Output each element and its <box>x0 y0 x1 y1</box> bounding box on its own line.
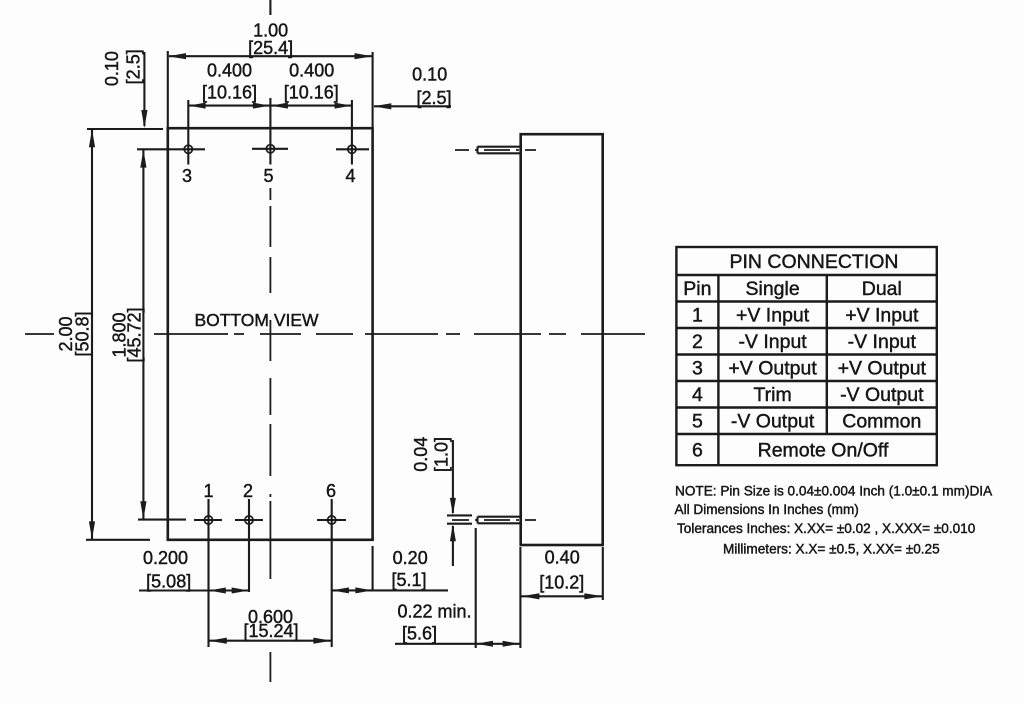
svg-text:BOTTOM VIEW: BOTTOM VIEW <box>194 310 319 330</box>
dim 2.00 extension lines <box>87 128 163 130</box>
svg-text:Common: Common <box>842 411 921 433</box>
dim 1.00 extension lines <box>167 51 169 127</box>
pin 1 <box>194 499 222 647</box>
pin 3 <box>137 100 205 165</box>
notes text <box>675 483 994 556</box>
bottom view package outline <box>168 128 373 540</box>
svg-text:6: 6 <box>326 481 336 501</box>
svg-text:4: 4 <box>345 166 355 186</box>
svg-text:0.22 min.: 0.22 min. <box>397 601 471 621</box>
dim 0.04 arrows <box>452 440 454 513</box>
svg-text:[2.5]: [2.5] <box>416 88 451 108</box>
svg-text:[1.0]: [1.0] <box>432 437 452 472</box>
svg-text:[25.4]: [25.4] <box>248 38 293 58</box>
svg-text:0.20: 0.20 <box>393 548 428 568</box>
svg-text:2: 2 <box>692 331 703 353</box>
svg-text:+V Output: +V Output <box>728 358 817 380</box>
svg-text:0.04: 0.04 <box>411 437 431 472</box>
pin 6 <box>317 499 346 647</box>
svg-text:+V Output: +V Output <box>838 358 927 380</box>
svg-text:[2.5]: [2.5] <box>124 49 144 84</box>
svg-text:5: 5 <box>263 166 273 186</box>
vertical centerline extension for 0.400 dims <box>269 98 271 128</box>
svg-text:PIN CONNECTION: PIN CONNECTION <box>729 251 898 273</box>
svg-text:[5.1]: [5.1] <box>391 570 426 590</box>
svg-text:NOTE: Pin Size is 0.04±0.004 I: NOTE: Pin Size is 0.04±0.004 Inch (1.0±0… <box>675 483 993 498</box>
svg-text:[5.08]: [5.08] <box>146 571 191 591</box>
dim 0.600 line <box>209 640 332 642</box>
svg-text:0.200: 0.200 <box>143 548 188 568</box>
svg-text:3: 3 <box>692 358 703 380</box>
dim 0.200 line <box>139 589 249 591</box>
svg-text:Dual: Dual <box>862 278 902 300</box>
svg-text:Trim: Trim <box>753 384 791 406</box>
svg-text:Single: Single <box>745 278 799 300</box>
svg-text:Pin: Pin <box>683 278 711 300</box>
svg-text:3: 3 <box>182 166 192 186</box>
pin connection table borders <box>676 247 936 465</box>
svg-text:[15.24]: [15.24] <box>243 621 298 641</box>
svg-text:[10.16]: [10.16] <box>202 82 257 102</box>
side view top pin <box>455 147 536 154</box>
horizontal centerline dashed across drawing <box>25 333 645 335</box>
svg-text:0.10: 0.10 <box>412 65 447 85</box>
dim 1.800 line <box>142 150 144 519</box>
svg-text:[45.72]: [45.72] <box>125 307 145 362</box>
dim 0.20 extension and line <box>372 546 374 591</box>
pin 5 <box>252 128 288 165</box>
pin 2 <box>235 499 263 592</box>
svg-text:Millimeters: X.X= ±0.5, X.XX=: Millimeters: X.X= ±0.5, X.XX= ±0.25 <box>723 541 940 556</box>
dim 0.22 line <box>395 643 520 645</box>
svg-text:-V Input: -V Input <box>848 331 917 353</box>
dim 0.40 extension and line <box>602 547 604 600</box>
dim 0.04 extension lines <box>447 514 472 516</box>
svg-text:5: 5 <box>692 411 703 433</box>
svg-text:+V Input: +V Input <box>845 305 919 327</box>
svg-text:-V Output: -V Output <box>731 411 815 433</box>
svg-text:All Dimensions In Inches (mm): All Dimensions In Inches (mm) <box>675 502 859 517</box>
svg-text:+V Input: +V Input <box>736 305 810 327</box>
side view package outline <box>521 134 603 545</box>
svg-text:-V Input: -V Input <box>738 331 807 353</box>
svg-text:1: 1 <box>692 305 703 327</box>
dimension texts <box>56 21 584 644</box>
svg-text:0.40: 0.40 <box>545 548 580 568</box>
svg-text:[5.6]: [5.6] <box>402 624 437 644</box>
dim 1.800 extension line bottom <box>138 519 186 521</box>
dim 2.00 line <box>91 130 93 539</box>
vertical centerline dashed (bottom view) <box>269 188 271 682</box>
svg-text:0.10: 0.10 <box>102 51 122 86</box>
table texts <box>683 251 926 462</box>
dim 0.10 right leader <box>374 105 451 107</box>
dim 1.00 line <box>169 55 372 57</box>
dim 0.400 line <box>188 105 352 107</box>
vertical centerline tick above 1.00 <box>269 0 271 15</box>
svg-text:[10.16]: [10.16] <box>284 82 339 102</box>
side view bottom pin <box>452 517 536 524</box>
svg-text:-V Output: -V Output <box>840 384 924 406</box>
svg-text:[10.2]: [10.2] <box>539 573 584 593</box>
dim 0.22 extension lines <box>475 528 477 648</box>
svg-text:Tolerances Inches: X.XX= ±0.02: Tolerances Inches: X.XX= ±0.02 , X.XXX= … <box>677 521 976 536</box>
svg-text:0.400: 0.400 <box>207 61 252 81</box>
svg-text:[50.8]: [50.8] <box>73 311 93 356</box>
svg-text:6: 6 <box>692 440 703 462</box>
svg-text:4: 4 <box>692 384 703 406</box>
pin 4 <box>336 100 369 165</box>
svg-text:0.400: 0.400 <box>289 61 334 81</box>
svg-text:1: 1 <box>203 481 213 501</box>
svg-text:2: 2 <box>243 481 253 501</box>
dim 0.10 left vertical line with down arrow <box>143 52 145 126</box>
svg-text:Remote On/Off: Remote On/Off <box>758 440 889 462</box>
